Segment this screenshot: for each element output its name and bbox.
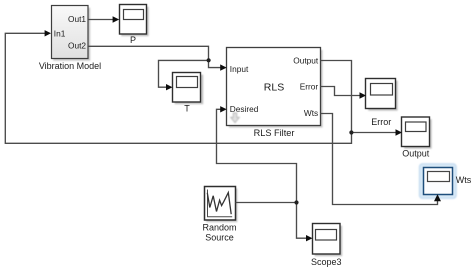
svg-text:Vibration Model: Vibration Model [39,61,101,71]
svg-text:Wts: Wts [456,175,472,185]
svg-text:RLS Filter: RLS Filter [254,128,295,138]
svg-text:Random: Random [202,222,236,232]
svg-text:Output: Output [402,148,430,158]
svg-text:Out2: Out2 [68,41,86,51]
svg-text:Output: Output [293,56,319,66]
svg-text:Source: Source [205,232,234,242]
svg-text:Error: Error [371,117,391,127]
svg-text:RLS: RLS [264,82,284,94]
svg-text:Error: Error [300,82,319,92]
svg-text:Out1: Out1 [68,14,86,24]
svg-text:P: P [130,35,136,45]
svg-text:In1: In1 [54,29,66,39]
svg-text:Scope3: Scope3 [311,257,342,267]
svg-text:Input: Input [230,64,249,74]
svg-text:Wts: Wts [304,108,318,118]
svg-text:T: T [184,103,190,113]
